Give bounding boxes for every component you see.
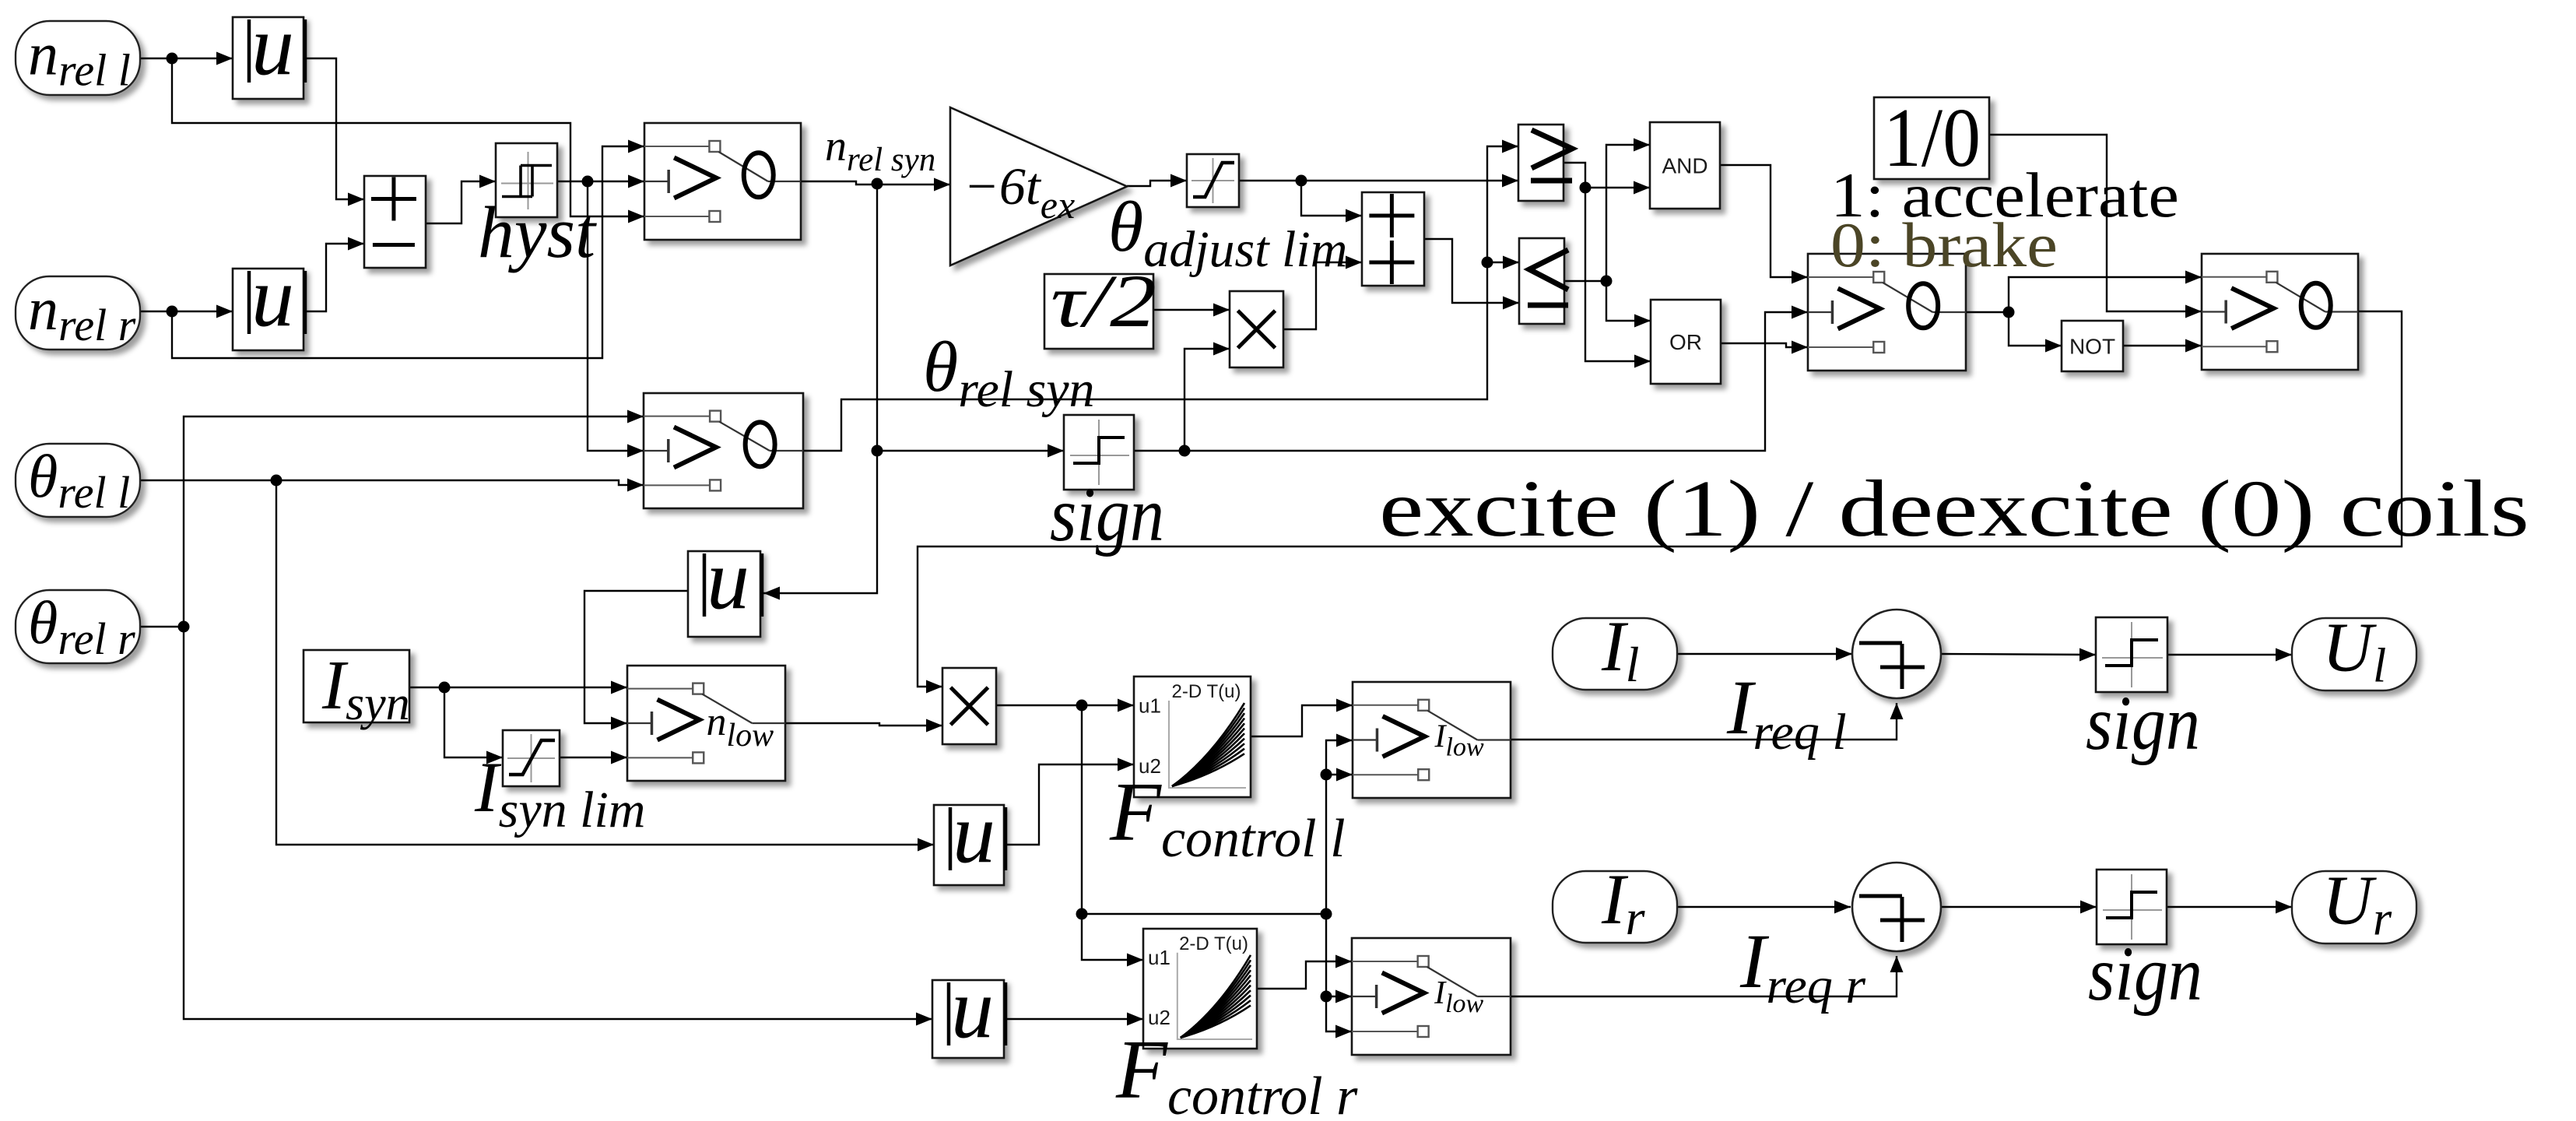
wire switch1 out n_rel_syn [801, 178, 950, 192]
switch3 gt0 [1808, 254, 1966, 371]
wire sum1 to relay [426, 175, 496, 224]
svg-text:u: u [953, 785, 995, 880]
wire theta_rel_l to switch2 in3 [139, 475, 644, 492]
svg-text:hyst: hyst [478, 192, 597, 273]
wire sumc2 to sign3 [1939, 901, 2097, 914]
svg-text:AND: AND [1662, 154, 1707, 178]
relational ge [1518, 125, 1572, 201]
OR gate [1651, 300, 1721, 384]
wire NOT to switch4 in3 [2123, 339, 2202, 353]
switch4 gt0 [2202, 254, 2358, 370]
svg-text:sign: sign [2088, 930, 2202, 1017]
inport theta_rel_l [16, 442, 140, 518]
svg-text:NOT: NOT [2069, 335, 2115, 359]
inport n_rel_r [16, 275, 140, 350]
svg-text:2-D T(u): 2-D T(u) [1179, 933, 1248, 954]
wire abs2 to sum1 in2 [304, 237, 364, 312]
sign2 block [2096, 617, 2167, 692]
wire sign1 branch to product1 in2 [1184, 343, 1230, 452]
wire rail to IlowB in3 [1326, 996, 1352, 1038]
svg-text:u1: u1 [1139, 694, 1161, 718]
wire sum2 to lt in2 [1424, 239, 1519, 310]
wire product1 to sum2 in2 [1283, 256, 1362, 330]
wire I_l to sumc1 [1677, 648, 1852, 661]
saturation I_syn_lim [503, 730, 560, 786]
wire n_rel_l to abs1 [140, 52, 233, 65]
AND gate [1650, 122, 1720, 209]
constant tau/2 [1044, 274, 1153, 349]
wire lookup1 to IlowA in1 [1251, 699, 1353, 737]
wire theta_rel_syn branch to lt in1 [1482, 256, 1520, 269]
abs block |u| 4 [934, 785, 1005, 885]
constant 1/0 [1874, 97, 1989, 179]
svg-text:OR: OR [1669, 330, 1702, 354]
wire I_syn branch to sat2 [444, 687, 503, 764]
sum circle left [1852, 610, 1941, 698]
wire n_rel_l raw to switch1 in3 [172, 58, 644, 223]
wire ge branch to OR in2 [1585, 188, 1651, 368]
wire AND to switch3 in1 [1720, 165, 1808, 284]
gain -6tex triangle [950, 107, 1127, 265]
svg-text:2-D T(u): 2-D T(u) [1172, 681, 1241, 702]
wire theta_rel_r up to switch2 in1 [184, 410, 644, 627]
wire rail down to IlowB in2 [1321, 914, 1353, 1003]
wire I_syn to switch5 in1 [409, 681, 627, 694]
saturation adjust-lim [1187, 154, 1239, 207]
outport U_l [2292, 610, 2416, 693]
sign1 block [1064, 415, 1134, 490]
wire ge out to AND in2 [1563, 163, 1650, 195]
relay hyst [496, 143, 557, 217]
wire rail to IlowA in3 [1326, 768, 1353, 782]
sum circle right [1852, 863, 1941, 951]
svg-text:excite (1) / deexcite (0) coil: excite (1) / deexcite (0) coils [1379, 464, 2529, 553]
svg-text:sign: sign [1050, 471, 1164, 557]
wire n_rel_syn drop to abs3 [763, 451, 877, 600]
switch6 gt-Ilow upper [1353, 682, 1511, 798]
wire OR to switch3 in3 [1721, 341, 1808, 354]
abs block |u| 1 [233, 0, 305, 99]
svg-text:sign: sign [2086, 680, 2200, 766]
wire sat1 to ge in2 [1239, 174, 1518, 188]
wire I_r to sumc2 [1677, 901, 1851, 914]
switch5 gt-nlow [627, 666, 785, 781]
svg-text:u: u [251, 249, 294, 344]
wire abs1 to sum1 in1 [304, 58, 364, 206]
wire sign2 to U_l [2167, 648, 2292, 662]
lookup 2-D right [1143, 929, 1257, 1049]
inport I_r [1553, 859, 1677, 945]
wire relay to switch1 in2 [557, 175, 644, 188]
wire theta_rel_l branch to abs4 [276, 480, 934, 852]
wire lt branch to OR in1 [1606, 281, 1651, 328]
constant I_syn [304, 650, 409, 722]
wire IlowA out Ireql to sumc1 [1511, 703, 1904, 740]
lookup 2-D left [1134, 676, 1251, 797]
wire tau2 to product1 in1 [1153, 304, 1230, 317]
wire sat1 branch to sum2 in1 [1301, 181, 1362, 223]
abs block |u| 2 [233, 249, 305, 350]
outport U_r [2292, 863, 2416, 946]
NOT gate [2062, 321, 2123, 371]
wire product2 to lookup1 u1 [996, 699, 1134, 712]
wire n_rel_syn drop to sign1 [872, 184, 1065, 458]
wire switch4 out excite to product2 in1 [918, 311, 2402, 694]
wire switch5 to product2 in2 [785, 719, 942, 733]
svg-text:u: u [707, 532, 749, 627]
wire switch3 branch to NOT [2009, 312, 2062, 353]
wire theta_rel_r down to abs5 [184, 627, 932, 1026]
wire abs5 to lookup2 u2 [1004, 1013, 1143, 1026]
relational le [1519, 238, 1568, 324]
wire lookup2 to IlowB in1 [1257, 955, 1352, 989]
wire abs3 to switch5 in2 [584, 591, 688, 730]
switch7 gt-Ilow lower [1352, 938, 1511, 1055]
svg-text:τ/2: τ/2 [1051, 259, 1156, 343]
wire product2 branch down [1076, 705, 1144, 967]
wire sat2 to switch5 in3 [560, 751, 627, 764]
switch1 gt0 [644, 123, 801, 240]
svg-text:u: u [251, 0, 294, 93]
inport I_l [1553, 606, 1677, 692]
wire lt out to AND in1 [1564, 139, 1650, 287]
wire n_rel_r to abs2 [140, 305, 233, 318]
wire n_rel_r raw to switch1 in1 [172, 140, 644, 359]
inport n_rel_l [16, 20, 140, 96]
wire abs4 to lookup1 u2 [1004, 758, 1134, 845]
abs block |u| 5 [932, 961, 1005, 1058]
wire gain to sat1 [1127, 174, 1187, 188]
sign3 block [2097, 870, 2167, 944]
svg-text:u: u [951, 961, 994, 1056]
wire rail up to IlowA in2 [1321, 734, 1353, 915]
wire IlowB out Ireqr to sumc2 [1511, 956, 1904, 996]
svg-text:0: brake: 0: brake [1830, 209, 2058, 280]
sum2 plus-plus [1362, 192, 1424, 286]
product1 [1230, 291, 1283, 367]
wire branch to right rail [1082, 908, 1332, 920]
sum1 plus-minus [364, 176, 426, 268]
wire relay branch to switch2 in2 [588, 181, 644, 458]
switch2 gt0 [644, 393, 803, 508]
product2 [942, 668, 996, 744]
wire theta_rel_r junction [140, 621, 190, 633]
wire sign3 to U_r [2167, 901, 2292, 914]
wire const10 to switch4 in2 [1989, 135, 2202, 318]
wire sign1 to switch3 in2 [1134, 306, 1808, 457]
wire theta_rel_syn to ge in1 [803, 140, 1518, 452]
wire switch3 out [1966, 271, 2202, 318]
abs block |u| 3 [688, 532, 762, 637]
wire sumc1 to sign2 [1941, 648, 2096, 662]
inport theta_rel_r [16, 589, 140, 664]
svg-text:u1: u1 [1148, 946, 1170, 969]
